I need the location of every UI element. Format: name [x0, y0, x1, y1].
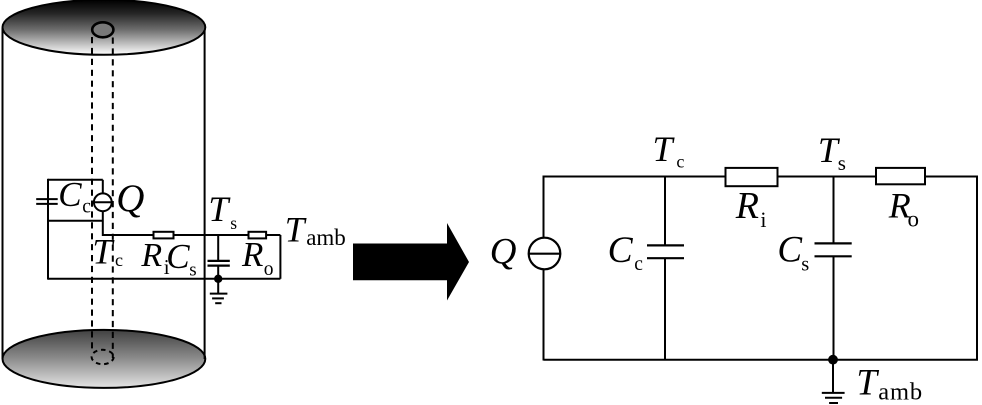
wire: top rail [544, 176, 979, 178]
wire: left vertical upper (top rail to source) [543, 176, 545, 239]
svg-text:c: c [634, 254, 643, 275]
big arrow (transform) [353, 223, 469, 301]
wire: right vertical (Tamb side) [279, 235, 281, 279]
wire: Cs top lead from top rail [833, 177, 835, 244]
cylinder bottom face (shaded disc) [3, 330, 206, 388]
svg-text:R: R [140, 237, 162, 274]
wire: main horizontal (Tc to Tamb) [103, 234, 281, 236]
hidden bottom hole (dashed ellipse) [92, 350, 114, 364]
svg-text:R: R [735, 185, 759, 227]
junction node Tamb (dot) [828, 355, 838, 365]
svg-text:Q: Q [490, 232, 517, 273]
svg-text:i: i [760, 207, 766, 232]
wire: upper box top (Cc to source) [48, 179, 103, 181]
current source Q (circle with bar) [529, 238, 561, 270]
svg-text:amb: amb [878, 379, 923, 405]
svg-text:C: C [166, 237, 190, 276]
svg-text:c: c [82, 196, 91, 217]
svg-text:T: T [92, 232, 115, 272]
svg-text:s: s [838, 151, 846, 175]
wire: Cc top lead from top rail [664, 177, 666, 246]
resistor Ro (box) [249, 232, 267, 239]
svg-text:C: C [58, 175, 82, 214]
svg-text:R: R [241, 235, 263, 274]
capacitor Cs (plates) [815, 243, 852, 256]
svg-text:T: T [285, 210, 307, 250]
wire: upper box middle horizontal [48, 220, 103, 222]
ground (embedded circuit) [210, 279, 228, 303]
capacitor Cc (plates) [647, 245, 684, 258]
ground (equivalent circuit) [822, 360, 845, 403]
hidden axis dashed line (left) [91, 37, 93, 351]
svg-text:T: T [208, 189, 231, 229]
capacitor Cs (plates) [208, 261, 230, 266]
top hole (gray ellipse) [92, 22, 113, 37]
svg-text:s: s [189, 260, 196, 281]
wire: Cs bottom lead to bottom rail [833, 256, 835, 360]
resistor Ri (box on top rail) [726, 168, 778, 186]
svg-text:T: T [653, 129, 676, 169]
cylinder right side wall [204, 28, 206, 359]
svg-text:C: C [777, 230, 803, 271]
cylinder left side wall [2, 28, 4, 359]
wire: right vertical (Ro to bottom rail) [976, 176, 978, 361]
svg-text:s: s [801, 253, 809, 275]
resistor Ri (box) [154, 232, 174, 239]
svg-text:c: c [676, 151, 684, 171]
junction node (dot) [214, 275, 222, 283]
wire: left vertical lower (source to bottom rail) [543, 269, 545, 360]
wire: Cc bottom lead to bottom rail [664, 258, 666, 360]
hidden axis dashed line (right) [112, 38, 114, 359]
wire: source bottom lead down to node Tc [102, 211, 104, 237]
wire: Cs top lead [217, 235, 219, 261]
capacitor Cc (plates across left wire) [36, 199, 58, 204]
svg-text:o: o [908, 206, 920, 231]
svg-text:C: C [608, 230, 634, 271]
wire: bottom rail [544, 359, 979, 361]
svg-text:T: T [856, 363, 879, 404]
wire: bottom horizontal return [48, 278, 280, 280]
svg-text:amb: amb [306, 225, 346, 250]
svg-text:Q: Q [116, 177, 144, 220]
cylinder top face (shaded disc) [3, 0, 206, 55]
svg-text:s: s [230, 213, 237, 233]
resistor Ro (box on top rail) [876, 168, 925, 184]
wire: Cs bottom lead [217, 266, 219, 279]
wire: source top lead [102, 180, 104, 194]
svg-text:c: c [115, 250, 123, 270]
svg-text:o: o [264, 259, 274, 280]
wire: upper box left vertical through Cc down to bottom wire [47, 179, 49, 280]
current source Q (circle with bar) [93, 193, 113, 211]
